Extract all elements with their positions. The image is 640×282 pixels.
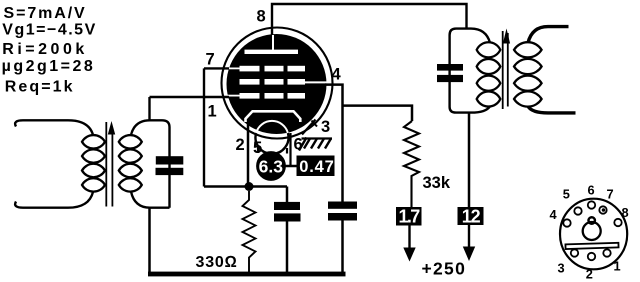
T1 ground drop wire (148, 208, 151, 272)
socket pin 1 hole (603, 249, 610, 256)
output secondary top lead (528, 27, 569, 43)
cathode (246, 111, 301, 122)
pin 6 lead (289, 133, 291, 165)
anode lead inside (272, 35, 274, 50)
T1 core line (105, 122, 107, 207)
supply arrow right (468, 225, 470, 248)
output transformer primary loop (450, 29, 490, 113)
svg-text:+250: +250 (422, 259, 467, 279)
anode plate bar (245, 50, 299, 54)
svg-text:µg2g1=28: µg2g1=28 (2, 58, 96, 75)
current box 12 (458, 207, 484, 225)
antenna coil bottom lead (15, 192, 93, 208)
socket pin 8 hole (614, 219, 621, 226)
svg-text:0.47: 0.47 (299, 158, 334, 176)
socket pin 5 hole (574, 207, 581, 214)
svg-text:6.3: 6.3 (259, 157, 284, 177)
output secondary bottom lead (528, 106, 576, 113)
wire anode pin8 to output transformer (272, 4, 467, 42)
svg-text:5: 5 (563, 187, 570, 202)
input transformer T1 antenna coil (82, 135, 105, 192)
antenna coil top lead (15, 120, 93, 135)
socket guide slot (565, 243, 618, 249)
svg-text:7: 7 (206, 50, 215, 68)
tube V1 inner disc (227, 34, 327, 134)
anode supply wire with 12 box (468, 113, 471, 207)
T1 tank capacitor (156, 156, 184, 164)
screen feed wire (343, 106, 413, 121)
svg-text:4: 4 (332, 65, 342, 83)
svg-text:1: 1 (614, 259, 621, 274)
heater voltage disc 6.3 (256, 151, 286, 181)
svg-text:7: 7 (607, 187, 614, 202)
current box 1.7 (396, 207, 422, 226)
svg-text:3: 3 (321, 118, 330, 136)
socket key spigot (583, 222, 601, 240)
socket pin 6 hole (588, 201, 595, 208)
ground bus (148, 272, 346, 277)
svg-text:S=7mA/V: S=7mA/V (4, 5, 87, 22)
socket base outline (560, 199, 627, 270)
pin 1 grid wire (150, 96, 230, 98)
output transformer primary coil (477, 42, 501, 106)
T1 secondary top lead and right side (131, 120, 170, 207)
tube V1 envelope (222, 28, 333, 139)
svg-text:8: 8 (622, 205, 629, 220)
heater lead right (286, 148, 288, 154)
T1 secondary coil (119, 135, 142, 192)
resistor 330 ohm (243, 191, 256, 272)
junction node dot (245, 182, 254, 191)
svg-text:3: 3 (558, 261, 565, 276)
bypass capacitor C1 (286, 187, 289, 203)
T1 tuning arrow (111, 132, 113, 207)
grid tap wire (148, 97, 150, 121)
output transformer tuning arrow (507, 33, 509, 107)
chassis ground pin 6 (299, 138, 332, 151)
output transformer tank capacitor (437, 64, 463, 71)
socket pin 2 hole (588, 253, 595, 260)
cathode junction horizontal wire (204, 185, 287, 188)
svg-text:Req=1k: Req=1k (5, 78, 75, 95)
svg-text:2: 2 (236, 136, 245, 154)
screen wire pin 4 (325, 85, 343, 202)
svg-text:12: 12 (462, 206, 481, 226)
svg-text:1.7: 1.7 (399, 207, 421, 227)
svg-text:6: 6 (588, 182, 595, 197)
wire 6.3 to 0.47 (286, 165, 298, 168)
current box 0.47 (297, 156, 335, 177)
heater lead left (257, 146, 259, 153)
g3 bracket wire down (203, 68, 205, 186)
svg-text:Ri=200k: Ri=200k (2, 41, 87, 58)
output transformer core line (502, 31, 504, 109)
socket pin 7 hole (599, 206, 606, 213)
grid g3 row dashes (227, 66, 305, 72)
svg-text:2: 2 (586, 266, 593, 281)
cathode wire pin 2 (247, 123, 250, 187)
bypass capacitor C2 (328, 202, 357, 209)
heater upper arc (256, 121, 288, 133)
grid g2 row dashes (240, 79, 328, 85)
svg-text:4: 4 (550, 207, 558, 222)
pin 7 stub wire (204, 67, 229, 69)
grid g1 row dashes (227, 93, 306, 99)
output transformer secondary coil (514, 42, 542, 106)
socket pin 3 hole (571, 249, 578, 256)
supply arrow left (408, 226, 410, 250)
svg-text:330Ω: 330Ω (196, 254, 238, 271)
svg-text:1: 1 (208, 102, 217, 120)
heater lower arc (256, 133, 289, 154)
svg-text:8: 8 (257, 7, 266, 25)
svg-text:Vg1=−4.5V: Vg1=−4.5V (2, 21, 96, 38)
socket pin 4 hole (563, 219, 570, 226)
pin 3 tick (302, 120, 316, 135)
T1 secondary bottom lead (131, 192, 170, 208)
resistor 33k (404, 121, 419, 208)
svg-text:33k: 33k (423, 174, 451, 192)
